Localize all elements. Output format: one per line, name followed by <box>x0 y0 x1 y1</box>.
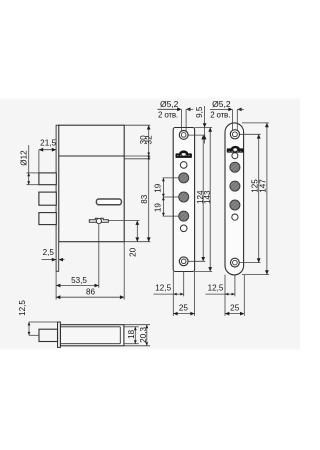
svg-text:21,5: 21,5 <box>40 138 56 147</box>
case top divider line <box>59 155 125 157</box>
dim 147 (strike plate length) <box>266 123 268 275</box>
lock case outline <box>59 125 125 242</box>
small hole (bottom) <box>180 225 187 232</box>
dim 143 (plate length) <box>209 128 211 272</box>
ELBOR logo (left plate) <box>179 150 188 153</box>
top screw hole ring <box>179 131 188 140</box>
svg-text:2,5: 2,5 <box>43 248 55 257</box>
dim 21,5 (bolt throw) <box>39 149 56 151</box>
svg-text:Ø12: Ø12 <box>20 150 29 166</box>
dim 12,5 (right plate screw offset) <box>224 275 226 316</box>
bolt B2 <box>39 192 56 205</box>
svg-text:19: 19 <box>153 183 162 193</box>
svg-text:86: 86 <box>86 288 96 297</box>
svg-text:25: 25 <box>179 304 189 313</box>
grey bolt hole 2 <box>179 192 189 202</box>
keyhole (double-bit key profile) <box>89 218 108 222</box>
dim 25 (left plate width) <box>173 313 194 315</box>
svg-text:12,5: 12,5 <box>155 283 171 292</box>
grey bolt hole 3 <box>179 211 189 221</box>
dim 30/32 extension lines <box>124 124 150 126</box>
left faceplate (front view) <box>173 128 194 272</box>
svg-text:20: 20 <box>129 247 138 257</box>
faceplate edge-on (side view) <box>56 125 59 271</box>
dim line 30/32/83 <box>148 125 150 242</box>
svg-text:2 отв.: 2 отв. <box>210 111 230 120</box>
grey hole 2 (right) <box>230 181 240 191</box>
dim 124 (screw hole centres) <box>188 134 205 136</box>
bottom view: bolt <box>39 329 58 341</box>
bottom screw hole ring (right) <box>231 258 240 267</box>
dim 19/19 (bolt hole spacing) <box>163 177 179 179</box>
ELBOR logo (right plate) <box>231 146 240 149</box>
dim 12,5 (bottom view) <box>29 321 58 323</box>
grey hole 3 (right) <box>230 200 240 210</box>
svg-text:53,5: 53,5 <box>71 276 87 285</box>
dim 125 (screw hole centres right) <box>240 133 261 135</box>
bolt B3 <box>39 213 56 225</box>
svg-text:19: 19 <box>153 203 162 213</box>
handle follower slot <box>96 199 121 205</box>
bottom screw hole ring <box>179 257 188 266</box>
dim 86 (case depth) <box>56 296 124 298</box>
small hole bottom (right) <box>232 214 238 220</box>
bottom view: faceplate <box>58 322 61 347</box>
svg-text:Ø5,2: Ø5,2 <box>160 99 179 109</box>
dim 12,5 (left plate screw offset) <box>172 272 174 316</box>
svg-text:83: 83 <box>140 194 149 204</box>
dim 20 (keyhole axis to case bottom) <box>109 220 140 222</box>
svg-text:25: 25 <box>230 304 240 313</box>
dim 2,5 (faceplate thickness) <box>42 259 57 261</box>
svg-text:12,5: 12,5 <box>208 283 224 292</box>
right strike plate (rounded ends) <box>225 123 244 275</box>
svg-text:Ø5,2: Ø5,2 <box>212 99 231 109</box>
bottom view: lock case <box>60 325 124 346</box>
svg-text:9,5: 9,5 <box>195 106 204 118</box>
grey hole 1 (right) <box>230 162 240 172</box>
svg-text:12,5: 12,5 <box>18 300 27 316</box>
svg-text:32: 32 <box>145 135 154 145</box>
svg-text:147: 147 <box>259 179 268 193</box>
small hole (top) <box>180 162 187 169</box>
dim 18 (case thickness inner) <box>124 326 139 328</box>
dim 53,5 (faceplate to keyhole axis) <box>98 224 100 288</box>
svg-text:2 отв.: 2 отв. <box>158 111 178 120</box>
dim 9,5 (plate top to screw hole) <box>204 106 206 144</box>
svg-text:18: 18 <box>127 329 136 339</box>
top screw hole ring (right) <box>230 130 239 139</box>
svg-text:143: 143 <box>203 190 212 204</box>
dim 25 (right plate width) <box>225 313 244 315</box>
grey bolt hole 1 <box>179 173 189 183</box>
dim 20,3 (case thickness outer) <box>124 324 150 326</box>
svg-text:20,3: 20,3 <box>139 327 148 343</box>
small hole top (right) <box>232 153 238 159</box>
dim Ø12 (bolt diameter) <box>27 172 39 174</box>
bolt B1 <box>39 173 56 185</box>
